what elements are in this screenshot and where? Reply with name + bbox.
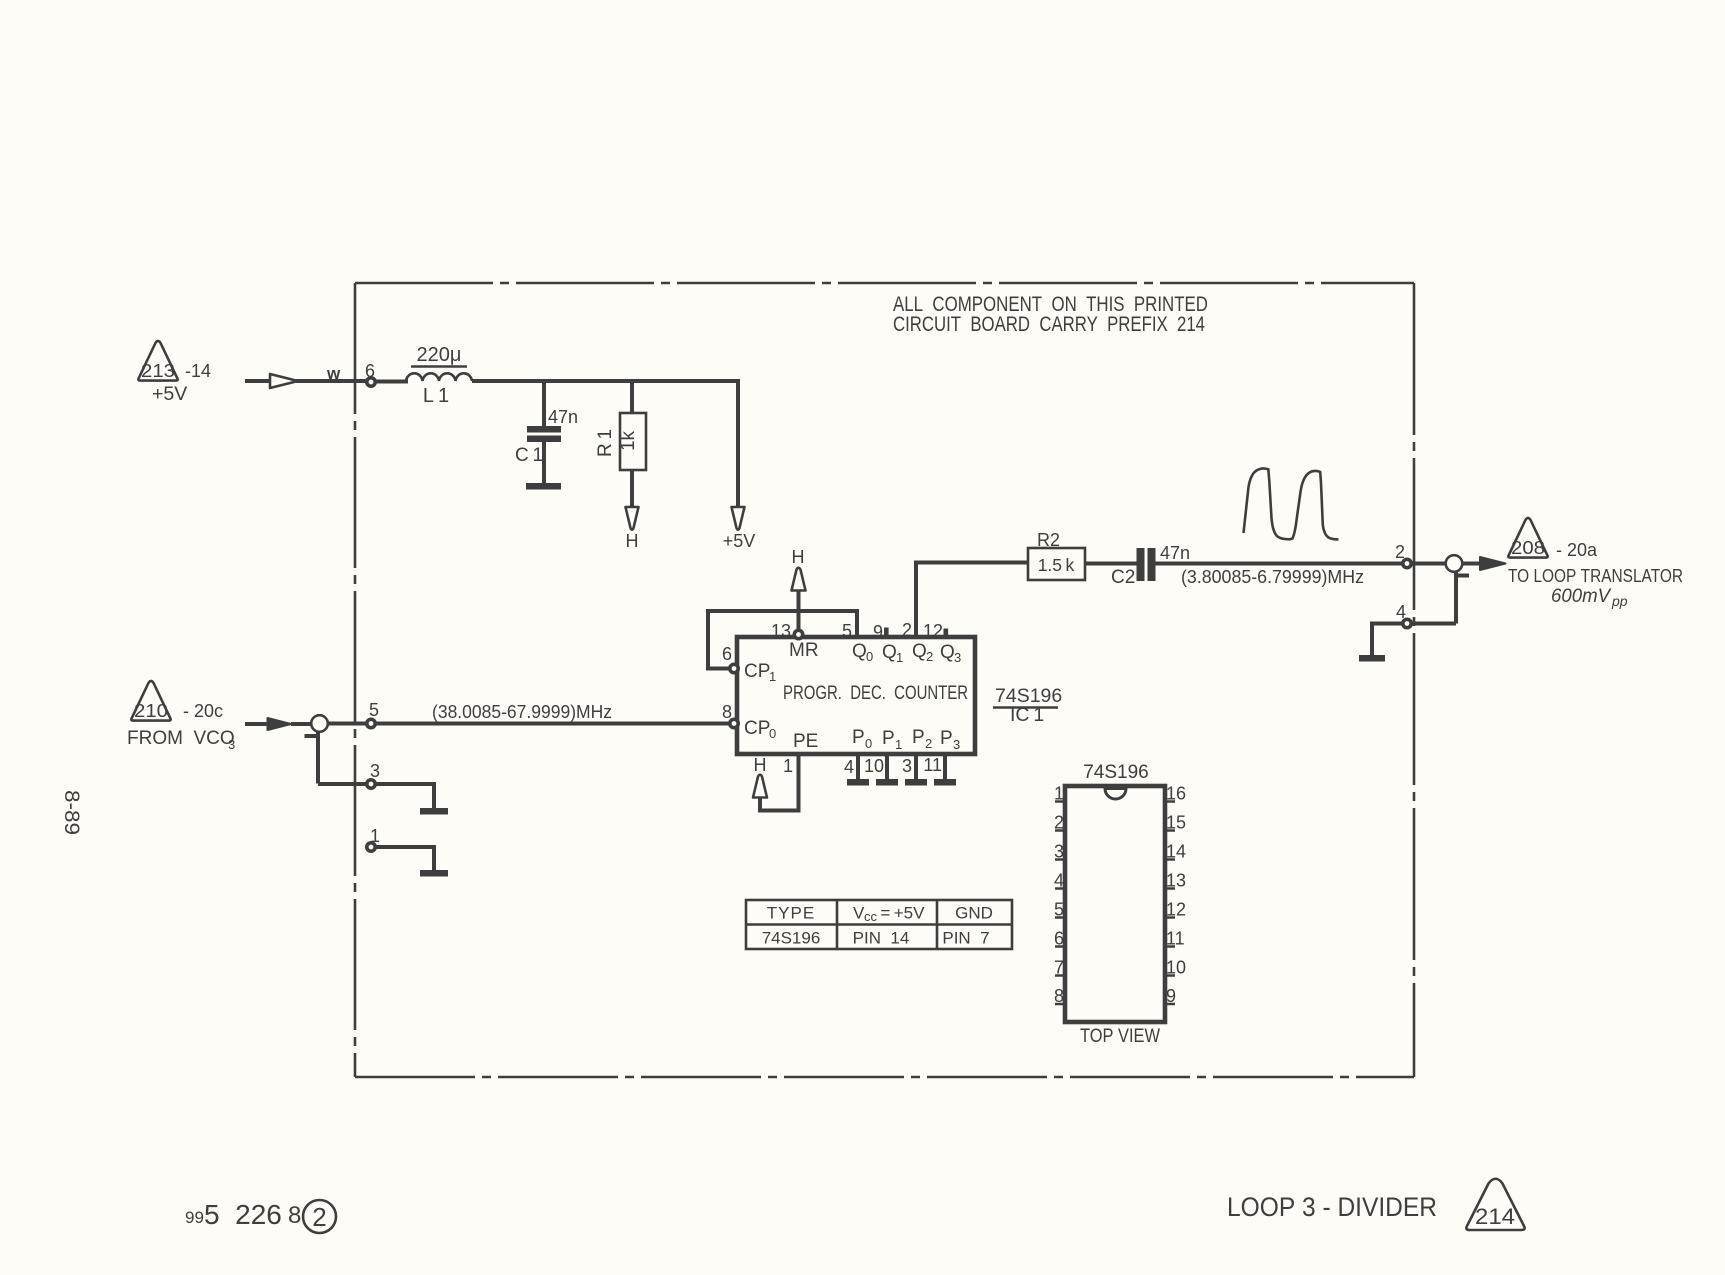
svg-text:12: 12 [1166,900,1186,920]
svg-text:1: 1 [1054,784,1064,804]
svg-text:= +5V: = +5V [877,904,925,923]
connector triangle 208 [1508,518,1683,609]
svg-text:1: 1 [370,826,380,846]
DIP right pins 16-9 [1165,784,1186,1007]
svg-text:9: 9 [1166,986,1176,1006]
svg-text:-14: -14 [185,361,211,381]
wire node4 to feedthrough tail [1411,622,1456,626]
svg-text:- 20c: - 20c [183,701,223,721]
pin 13 MR circle [771,621,803,641]
svg-text:CP: CP [744,718,770,739]
svg-text:3: 3 [953,737,960,752]
svg-text:C 1: C 1 [515,445,543,466]
svg-text:47n: 47n [1160,543,1190,563]
ground bar node 4 [1359,655,1385,662]
node 3 (terminal) [367,761,380,788]
svg-text:C2: C2 [1111,567,1135,588]
svg-text:1: 1 [769,669,776,684]
svg-text:+5V: +5V [723,531,756,551]
svg-text:+5V: +5V [152,383,187,405]
svg-text:0: 0 [866,649,873,664]
pin 1 PE wire to H [760,754,799,811]
sheet date 8-89 (rotated) [60,790,83,835]
svg-text:1: 1 [895,737,902,752]
svg-text:8-89: 8-89 [60,790,83,835]
capacitor C2 47n [1111,543,1190,588]
feed-through terminal (output) [1446,555,1469,623]
svg-text:6: 6 [1054,929,1064,949]
svg-text:PIN 14: PIN 14 [853,929,910,948]
svg-text:220μ: 220μ [417,344,462,366]
svg-text:0: 0 [865,736,872,751]
filled arrow output [1480,557,1506,570]
svg-text:8: 8 [288,1202,301,1229]
feed-through terminal (input) [305,715,328,783]
svg-text:pp: pp [1611,593,1628,609]
svg-text:5: 5 [1054,900,1064,920]
svg-text:4: 4 [844,757,854,777]
svg-text:FROM VCO: FROM VCO [127,728,235,749]
note: prefix text [893,293,1208,336]
svg-text:2: 2 [926,649,933,664]
svg-text:w: w [326,364,341,383]
resistor R2 1.5k [1028,530,1085,580]
wire node6 to L1 [375,380,408,384]
svg-text:P: P [882,728,895,749]
DIP caption TOP VIEW [1080,1026,1160,1047]
ground bar C1 [526,483,561,490]
svg-text:2: 2 [902,620,912,640]
svg-text:6: 6 [722,644,732,664]
PCB boundary bottom (dash-dot) [355,1076,1414,1079]
wire MR to H [797,589,801,632]
svg-text:H: H [754,755,767,775]
IC1 internal labels [744,640,968,752]
svg-text:R2: R2 [1037,530,1060,550]
resistor R1 1k [595,413,646,470]
svg-text:14: 14 [1166,842,1186,862]
wire feedback Q0 to CP1 [708,611,857,669]
svg-text:2: 2 [1054,813,1064,833]
svg-text:7: 7 [1054,958,1064,978]
svg-text:2: 2 [1395,542,1405,562]
wire L1 to +5V corner [472,379,738,383]
svg-text:13: 13 [1166,871,1186,891]
PCB boundary right (dash-dot) [1413,283,1416,1077]
pin 4 P0 ground [844,754,869,786]
ground bar node 1 [420,870,448,877]
DIP package 74S196 top view [1065,762,1165,1022]
op IC1 body [737,637,975,754]
svg-text:2: 2 [925,736,932,751]
wire VCO input [245,722,270,726]
node 2 (terminal) [1395,542,1411,568]
svg-text:16: 16 [1166,784,1186,804]
svg-text:9: 9 [873,622,883,642]
svg-text:47n: 47n [548,407,578,427]
svg-text:R 1: R 1 [595,429,616,457]
svg-text:LOOP 3 - DIVIDER: LOOP 3 - DIVIDER [1227,1192,1437,1222]
sheet number 995 226 8 (2) [185,1199,336,1233]
svg-text:PE: PE [793,731,818,752]
svg-text:10: 10 [1166,958,1186,978]
svg-text:8: 8 [722,702,732,722]
svg-text:3: 3 [228,737,235,752]
wire C1 branch [542,381,546,426]
wire node1 to ground [375,847,434,870]
svg-text:4: 4 [1054,871,1064,891]
svg-text:1k: 1k [618,430,639,451]
wire feedthrough to CP0 [328,722,366,726]
pin 3 P2 ground [902,754,927,786]
svg-text:1: 1 [896,650,903,665]
svg-text:8: 8 [1054,986,1064,1006]
svg-text:PROGR. DEC. COUNTER: PROGR. DEC. COUNTER [783,682,968,704]
IC1 type label 74S196/IC1 [993,685,1062,726]
wire R1 to H rail [630,470,634,508]
wire +5V input [245,379,270,383]
wire Q2 to R2 [916,563,1030,638]
table supply pins [746,900,1012,949]
connector triangle 213 [138,341,211,405]
svg-text:MR: MR [789,640,819,661]
node 5 (terminal) [367,700,379,728]
pin 12 label and stub [923,621,948,641]
svg-text:cc: cc [864,909,878,924]
svg-text:P: P [912,727,925,748]
wire node5 to CP0, freq label [375,702,729,724]
svg-text:TOP VIEW: TOP VIEW [1080,1026,1160,1047]
pin 8 CP0 circle [722,702,738,728]
node 1 (terminal) [367,826,380,851]
wire arrow to node 6 [296,364,366,383]
svg-text:Q: Q [940,642,955,663]
svg-text:208: 208 [1511,538,1545,558]
svg-text:H: H [626,531,639,551]
svg-text:IC 1: IC 1 [1010,704,1044,726]
waveform sketch [1244,468,1339,539]
svg-text:74S196: 74S196 [762,929,821,948]
svg-text:PIN 7: PIN 7 [942,929,989,948]
svg-text:600mV: 600mV [1551,586,1612,607]
svg-text:10: 10 [864,756,884,776]
svg-text:0: 0 [769,726,776,741]
svg-text:11: 11 [923,755,942,775]
node 4 (terminal) [1396,602,1411,628]
svg-text:15: 15 [1166,813,1186,833]
pin 9 label and stub [873,622,889,642]
wire node4 to ground [1372,624,1403,657]
svg-text:H: H [792,547,805,567]
title LOOP 3 - DIVIDER [1227,1192,1437,1222]
svg-text:11: 11 [1166,929,1185,949]
svg-text:TYPE: TYPE [767,904,815,923]
svg-text:74S196: 74S196 [1083,762,1149,783]
connector triangle 210 [127,681,235,752]
wire R2 to C2 [1085,562,1137,566]
pin 10 P1 ground [864,754,898,786]
capacitor C1 47n [515,407,578,483]
wire feedthrough to arrow [1462,562,1482,566]
svg-text:4: 4 [1396,602,1406,622]
open arrow +5V input [270,374,298,388]
svg-text:3: 3 [370,761,380,781]
svg-text:214: 214 [1475,1204,1515,1229]
svg-text:(3.80085-6.79999)MHz: (3.80085-6.79999)MHz [1181,567,1364,587]
open arrow +5V rail (down) [723,507,756,551]
svg-text:210: 210 [134,701,168,721]
open arrow H at PE (up) [753,755,767,798]
inductor L1 220u [406,344,472,407]
wire node2 to feedthrough [1411,562,1447,566]
svg-text:Q: Q [852,641,867,662]
wire branch to node 3 [318,782,366,786]
pin 11 P3 ground [923,754,956,786]
filled arrow VCO input [268,718,292,730]
svg-text:P: P [940,728,953,749]
svg-text:13: 13 [771,621,791,641]
svg-text:(38.0085-67.9999)MHz: (38.0085-67.9999)MHz [432,702,612,722]
svg-text:12: 12 [923,621,943,641]
open arrow H at MR (up) [792,547,806,591]
svg-text:- 20a: - 20a [1556,540,1598,560]
svg-text:3: 3 [902,756,912,776]
svg-text:3: 3 [954,650,961,665]
DIP left pins 1-8 [1054,784,1065,1007]
svg-text:Q: Q [882,642,897,663]
wire R1 branch [630,381,634,414]
node 6 (terminal) [365,361,375,386]
svg-text:6: 6 [365,361,375,381]
PCB boundary top (dash-dot) [355,282,1414,285]
svg-text:5: 5 [842,621,852,641]
pin 5 label [842,621,852,641]
wire node3 to ground [375,784,434,808]
svg-text:GND: GND [955,904,993,923]
ground bar node 3 [420,808,448,815]
svg-text:99: 99 [185,1208,204,1227]
wire C2 to node 2, freq label [1155,564,1403,588]
sheet triangle 214 [1466,1179,1524,1230]
svg-text:3: 3 [1054,842,1064,862]
pin 6 CP1 circle [722,644,738,673]
svg-text:Q: Q [912,641,927,662]
svg-text:5 226: 5 226 [204,1199,297,1230]
svg-text:2: 2 [312,1202,326,1232]
svg-text:P: P [852,727,865,748]
PCB boundary left (dash-dot) [354,283,357,1077]
svg-text:5: 5 [369,700,379,720]
svg-text:CP: CP [744,661,770,682]
svg-text:1: 1 [783,756,793,776]
wire +5V rail branch [736,379,740,508]
svg-text:L 1: L 1 [423,385,449,407]
svg-text:1.5 k: 1.5 k [1038,555,1075,575]
svg-text:CIRCUIT BOARD CARRY PREFIX: CIRCUIT BOARD CARRY PREFIX 214 [893,313,1205,336]
svg-text:213: 213 [141,361,175,381]
open arrow H rail (down) [626,507,639,551]
pin 2 label [902,620,912,640]
svg-text:TO LOOP TRANSLATOR: TO LOOP TRANSLATOR [1508,566,1683,586]
wire arrow to feedthrough [291,722,312,726]
